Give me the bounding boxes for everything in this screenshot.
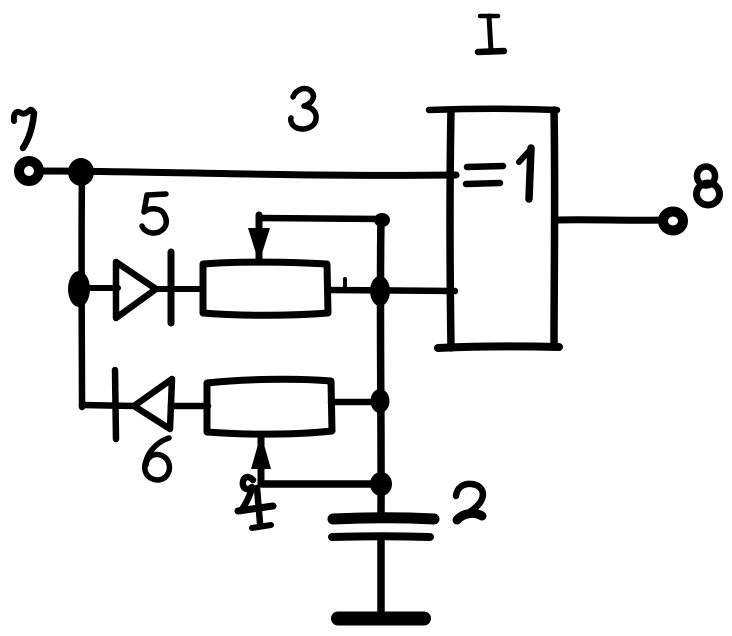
wire bar to R1 (158, 286, 203, 292)
output wire (556, 216, 662, 224)
terminal 7 (19, 161, 39, 181)
label 6 (145, 438, 170, 480)
label =1 (467, 166, 503, 167)
capacitor C2 top plate (333, 518, 434, 519)
resistor R2 (207, 379, 332, 434)
wiper arrow R1 (256, 215, 263, 258)
junction node E (370, 472, 392, 496)
wire corner to diode 6 (82, 405, 135, 406)
wire corner junction (374, 213, 390, 227)
terminal 8 (663, 212, 683, 231)
label 2 (456, 484, 483, 518)
ink tick mark (343, 279, 347, 290)
diode VD5 triangle (116, 262, 156, 318)
wire to diode 5 (82, 285, 118, 291)
label 5 (142, 194, 166, 233)
junction node C (370, 276, 390, 306)
capacitor C2 bottom plate (332, 532, 430, 541)
wiper arrow R2 (258, 438, 265, 484)
wire net 3 (input 7 to gate) (42, 171, 456, 175)
wire wiper R2 bottom (262, 480, 381, 488)
junction node D (371, 389, 390, 413)
wire middle vertical (377, 220, 385, 514)
diode VD6 cathode bar (115, 370, 116, 439)
label I (480, 14, 498, 19)
diode VD5 cathode bar (168, 252, 175, 323)
ground (338, 612, 424, 626)
wire cap to ground (377, 540, 385, 616)
resistor R1 (203, 262, 328, 315)
junction node A (68, 158, 94, 186)
label 4 (241, 477, 253, 511)
wire left vertical (78, 172, 85, 407)
label 8 (697, 167, 715, 186)
diode VD6 triangle (134, 379, 172, 429)
logic gate U1 "=1" (XOR) box (429, 109, 557, 110)
junction node B (68, 271, 90, 307)
wire to R2 (171, 403, 208, 410)
wire R1 to gate (328, 290, 455, 291)
label 7 (14, 110, 34, 121)
wire wiper R1 top (259, 218, 384, 219)
label 3 (291, 89, 316, 129)
wire R2 right (331, 399, 374, 406)
